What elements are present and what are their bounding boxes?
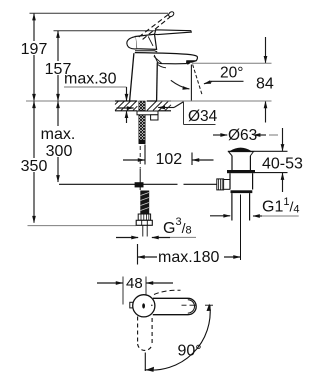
svg-text:350: 350 <box>21 158 48 175</box>
waste upper cylinder <box>231 156 233 170</box>
pop-up rod vertical <box>139 168 141 190</box>
svg-text:300: 300 <box>46 143 73 160</box>
dimension 102 <box>144 145 146 165</box>
supply hose dashes <box>139 146 141 168</box>
dimension 157 <box>57 31 59 101</box>
svg-text:Ø34: Ø34 <box>188 108 218 125</box>
swing centerline <box>144 353 146 372</box>
seal ring <box>227 170 255 173</box>
deck extension line left <box>26 100 115 102</box>
lever inner tip arc <box>188 300 195 313</box>
stream line 20 deg (dashed) <box>193 65 203 96</box>
svg-text:48: 48 <box>126 275 143 292</box>
handle back bulge <box>127 37 137 49</box>
shank end solid <box>139 140 146 144</box>
raised lever (dashed) <box>139 14 169 37</box>
svg-text:40-53: 40-53 <box>262 156 303 173</box>
top view: dimension 48 <box>122 277 124 305</box>
spout inner line <box>154 56 162 63</box>
svg-text:102: 102 <box>156 151 183 168</box>
extension line top (197) <box>30 12 169 14</box>
knob center <box>142 303 145 308</box>
pop-up rod <box>59 183 178 185</box>
dashed upper arc <box>154 290 181 294</box>
spout top curve <box>135 53 198 63</box>
spout shoulder <box>154 55 157 62</box>
hose knurled nut <box>138 214 150 220</box>
extension line hose end (350) <box>28 225 137 227</box>
extension line (157) <box>54 30 162 32</box>
washer under deck <box>137 111 158 115</box>
flange taper <box>229 152 232 156</box>
side port <box>217 179 230 181</box>
handle body <box>135 34 156 49</box>
handle inner line <box>148 36 153 46</box>
flange plate <box>228 150 254 152</box>
deck extension line right <box>157 100 272 102</box>
G3/8 arrows <box>116 237 138 239</box>
dia63 dimension <box>213 134 227 136</box>
pop-up waste flange dome <box>230 148 251 151</box>
waste bottom band <box>231 190 253 193</box>
dimension 84 <box>265 37 267 63</box>
faucet neck joint lines <box>135 51 157 52</box>
top view: knob <box>133 295 155 317</box>
swung lever (dashed) <box>137 317 139 345</box>
threaded shank through deck <box>139 101 145 111</box>
dia34 arrows <box>117 107 134 109</box>
svg-text:max.30: max.30 <box>64 71 117 88</box>
connector stubs <box>142 225 144 236</box>
svg-text:20°: 20° <box>220 65 243 82</box>
arc arrow bottom <box>146 367 154 372</box>
spout underside <box>158 62 187 63</box>
flexible hose <box>140 191 149 215</box>
arc arrow top <box>207 304 212 312</box>
faucet body left edge <box>130 53 134 101</box>
swing arc 90 <box>145 306 210 371</box>
tailpipe <box>231 193 233 220</box>
svg-text:90°: 90° <box>178 342 202 359</box>
svg-text:197: 197 <box>21 41 48 58</box>
dimension 40-53 <box>254 150 288 152</box>
deck section bottom line <box>115 110 137 112</box>
dimension 197 <box>33 14 35 101</box>
mounting nut <box>151 115 158 120</box>
waste lower body <box>229 173 231 189</box>
stream line vertical <box>190 65 192 101</box>
knurled cap <box>217 179 224 190</box>
top view: left tab <box>130 302 134 308</box>
dimension 84 extension line <box>192 62 272 64</box>
top view: lever arm <box>153 298 196 314</box>
aerator outlet <box>186 60 196 64</box>
spout fillet arc <box>158 65 166 68</box>
svg-text:84: 84 <box>256 76 274 93</box>
deck hatching <box>115 101 171 111</box>
raised lever tip <box>168 11 175 18</box>
angle arc <box>171 80 190 89</box>
hose hex end <box>136 220 152 225</box>
svg-text:Ø63: Ø63 <box>228 127 257 144</box>
dimension 350 <box>33 101 35 222</box>
lever centerline dashes <box>182 304 214 306</box>
svg-text:max.: max. <box>41 126 76 143</box>
deck section top line <box>115 100 137 102</box>
faucet body right edge <box>156 62 159 101</box>
rod clamp nut <box>135 182 144 187</box>
dimension max.180 <box>137 244 139 265</box>
dimension max.300 <box>57 101 59 182</box>
lever arm <box>155 30 192 35</box>
drain center rod <box>240 195 242 261</box>
svg-text:max.180: max.180 <box>158 249 219 266</box>
